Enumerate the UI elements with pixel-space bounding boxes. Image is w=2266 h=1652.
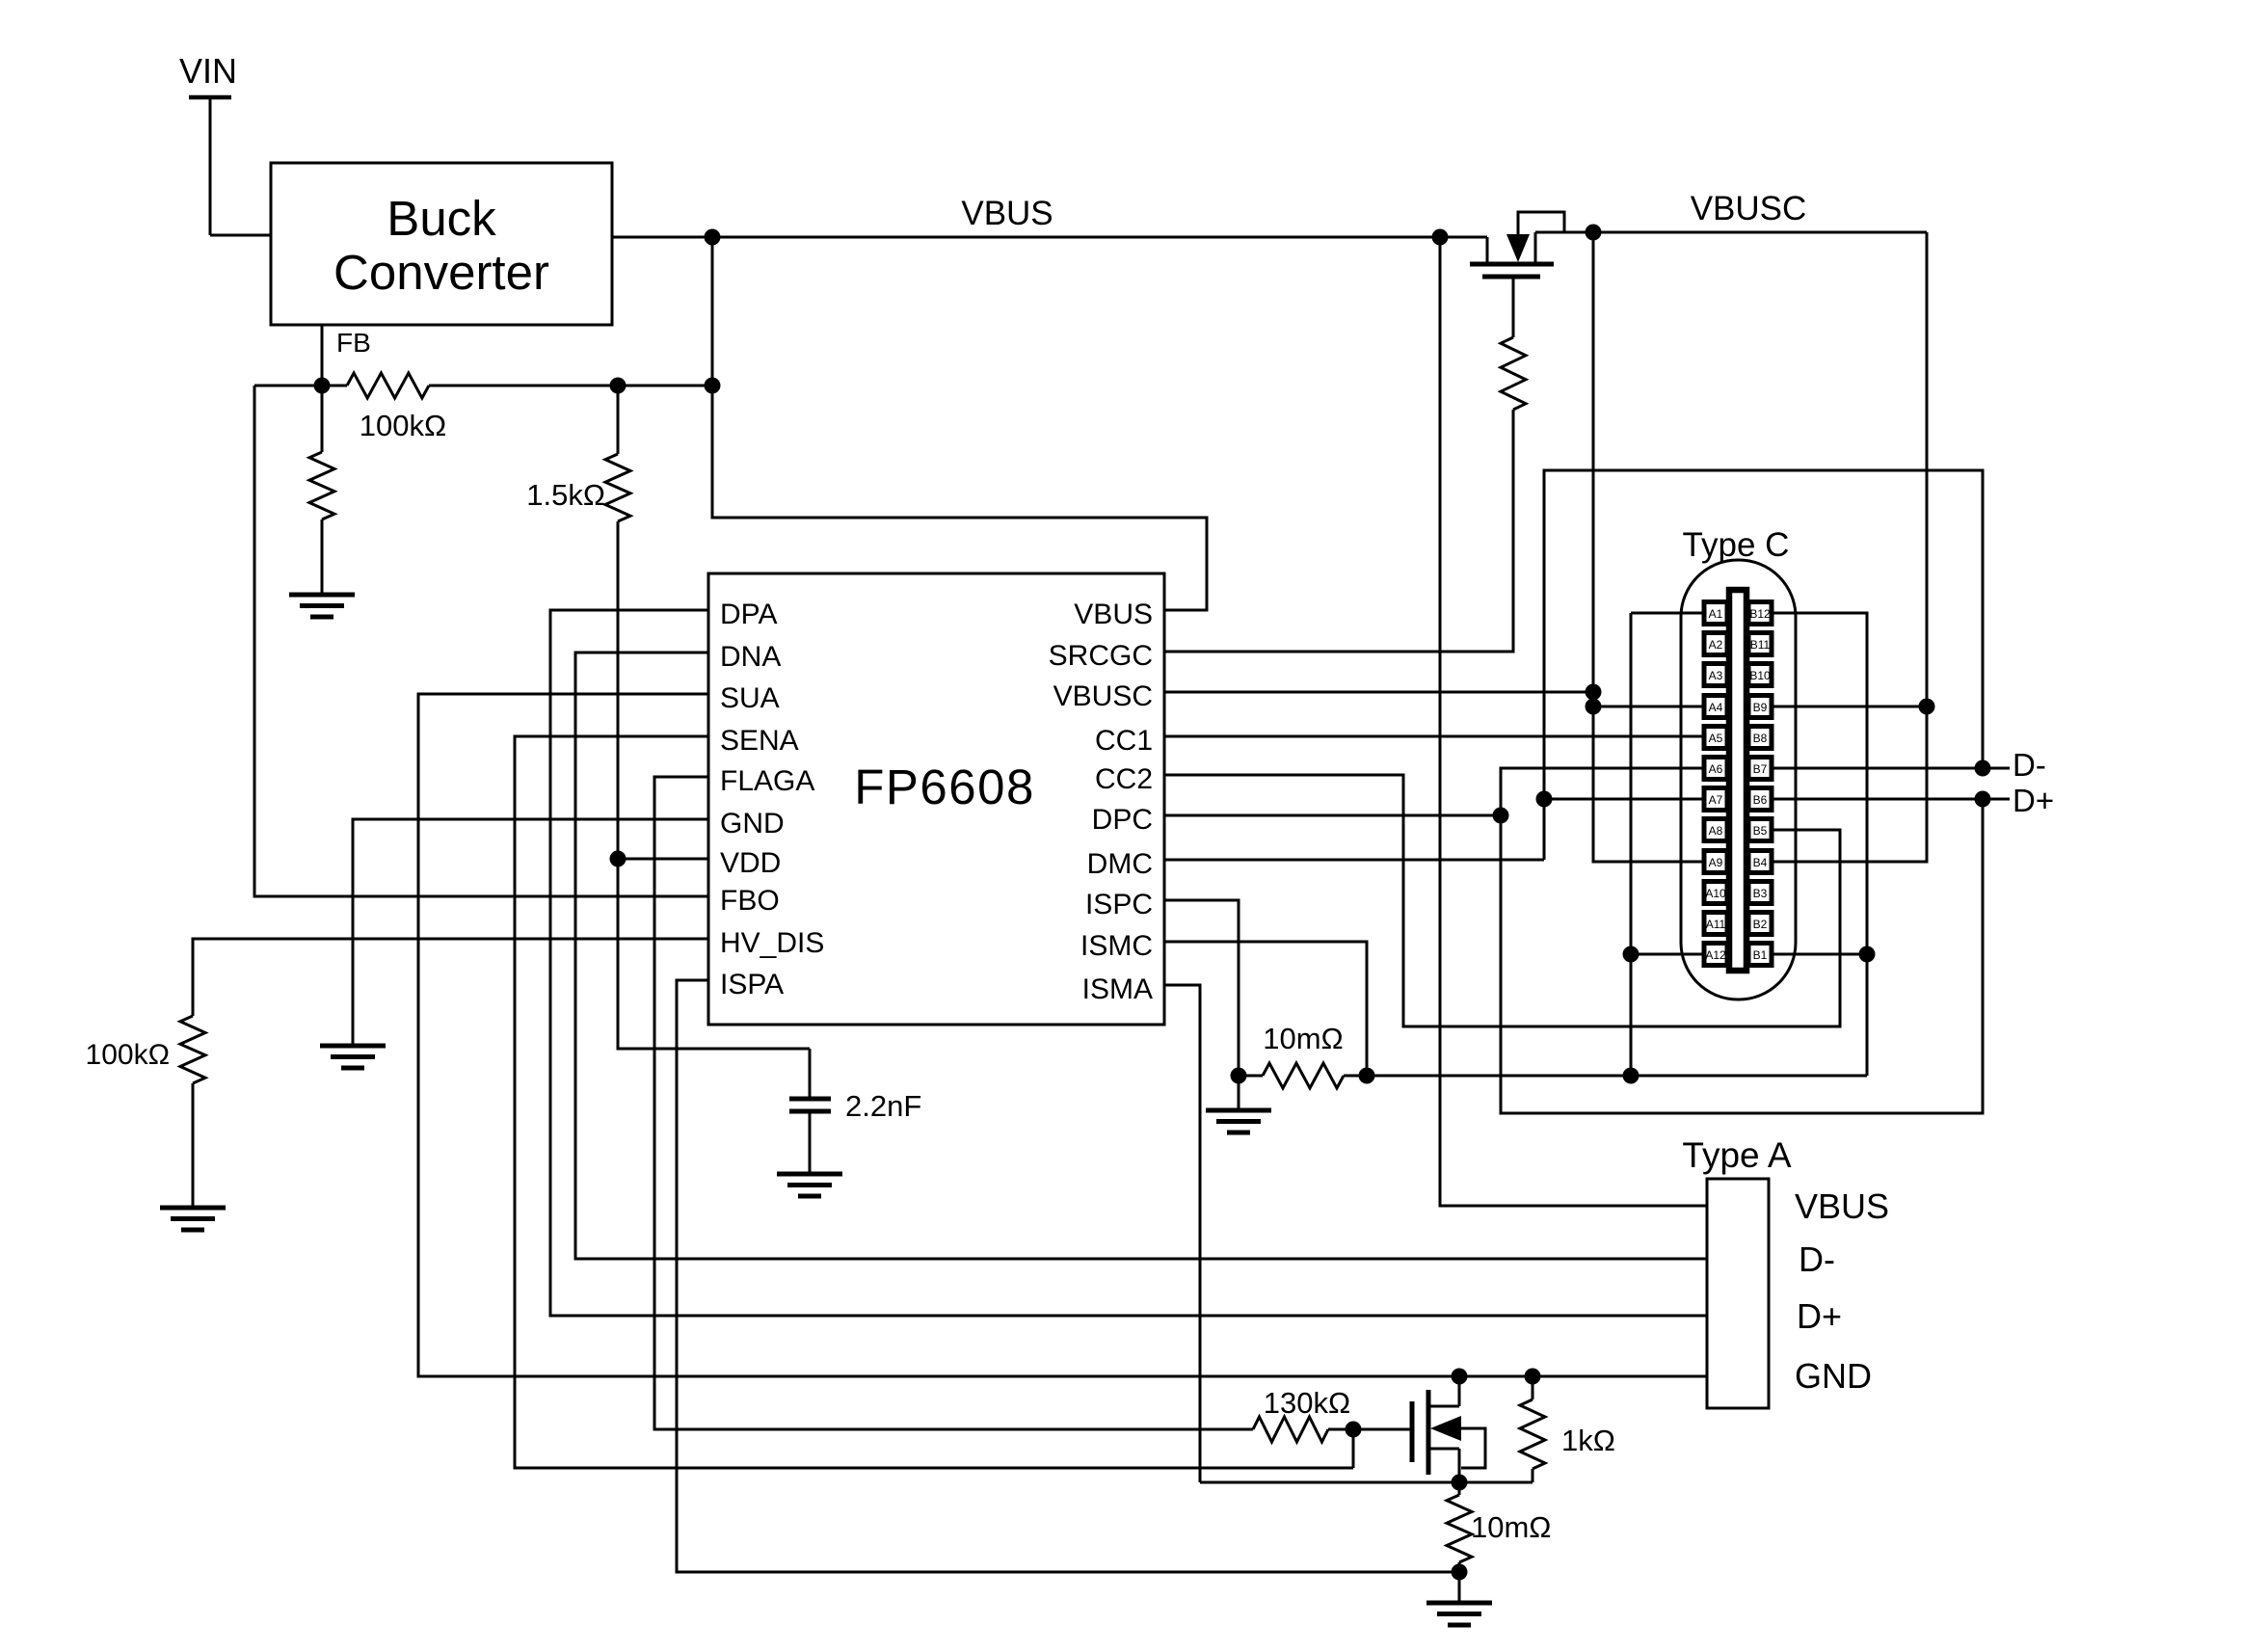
svg-text:ISPA: ISPA: [720, 969, 784, 1000]
wire VIN to Buck input: [210, 234, 271, 237]
ground (Type A sense): [1426, 1603, 1492, 1625]
svg-text:B10: B10: [1749, 669, 1771, 682]
node D+ tap: [1975, 791, 1991, 808]
svg-text:Type A: Type A: [1682, 1135, 1791, 1175]
pin FB of Buck Converter: [322, 325, 371, 386]
wire ISPA to sense resistor bottom: [677, 980, 1459, 1572]
wire 10m left to ground: [1238, 1076, 1240, 1110]
wire VBUSC pin: [1164, 691, 1593, 694]
svg-text:D+: D+: [2013, 783, 2054, 818]
svg-text:CC1: CC1: [1095, 725, 1153, 757]
svg-text:FBO: FBO: [720, 885, 780, 917]
wire VBUS rail (buck output): [612, 195, 1487, 237]
resistor R9 10m (Type A sense): [1447, 1482, 1551, 1572]
node 10m right junction: [1359, 1068, 1375, 1084]
svg-text:B7: B7: [1753, 762, 1768, 776]
svg-text:SRCGC: SRCGC: [1049, 640, 1153, 672]
wire Type A VBUS: [1440, 237, 1707, 1206]
wire Type C A1/A12 ground: [1631, 613, 1704, 1076]
svg-text:A12: A12: [1705, 948, 1726, 962]
svg-text:VDD: VDD: [720, 847, 781, 879]
svg-text:D-: D-: [2013, 747, 2046, 783]
wire ISMC to 10m right: [1164, 942, 1367, 1076]
resistor R3 1.5k (FB node to VDD): [526, 386, 630, 859]
svg-text:DNA: DNA: [720, 641, 781, 673]
svg-text:130kΩ: 130kΩ: [1264, 1386, 1350, 1420]
node DMC/A7 junction: [1536, 791, 1553, 808]
svg-text:B11: B11: [1750, 638, 1771, 652]
wire Type C ground bus: [1367, 1075, 1867, 1078]
svg-text:ISMC: ISMC: [1080, 930, 1153, 962]
svg-text:A9: A9: [1709, 856, 1723, 869]
svg-text:SENA: SENA: [720, 725, 799, 757]
svg-text:A4: A4: [1709, 701, 1723, 714]
power terminal VIN: [179, 51, 237, 235]
label Type A: [1682, 1135, 1791, 1175]
svg-text:B6: B6: [1753, 793, 1768, 807]
svg-text:VBUSC: VBUSC: [1053, 680, 1153, 712]
svg-text:DPC: DPC: [1092, 804, 1153, 836]
node Q2 source junction: [1452, 1475, 1468, 1491]
ground (Type C sense): [1206, 1110, 1271, 1132]
wire DMC net to A7/B7: [1544, 470, 1983, 860]
svg-text:B2: B2: [1753, 918, 1768, 931]
resistor R4 100k (HV_DIS): [86, 1016, 205, 1208]
pin labels of FP6608: [720, 599, 1153, 1005]
svg-text:D-: D-: [1799, 1239, 1835, 1279]
wire SENA to Q2 gate node: [515, 736, 1353, 1468]
node DPC junction: [1493, 808, 1509, 824]
svg-text:100kΩ: 100kΩ: [360, 409, 446, 442]
svg-text:A6: A6: [1709, 762, 1723, 776]
connector J1 tongue: [1729, 590, 1746, 971]
wire 130k to gate: [1328, 1428, 1412, 1431]
svg-text:10mΩ: 10mΩ: [1471, 1510, 1551, 1544]
IC U1 FP6608 body: [708, 573, 1164, 1025]
svg-text:HV_DIS: HV_DIS: [720, 927, 824, 959]
svg-text:VIN: VIN: [179, 51, 237, 91]
resistor R7 10m (Type C sense): [1239, 1022, 1367, 1088]
node B1 junction: [1859, 946, 1876, 963]
node VBUSC pin junction: [1586, 684, 1602, 701]
node VBUSC junction: [1586, 225, 1602, 241]
ground (HV_DIS 100k): [160, 1208, 226, 1230]
node Q2 drain junction: [1452, 1369, 1468, 1385]
svg-text:VBUSC: VBUSC: [1691, 190, 1807, 227]
transistor Q2 NMOS (Type A GND switch): [1412, 1376, 1485, 1482]
svg-text:FLAGA: FLAGA: [720, 765, 814, 797]
svg-text:GND: GND: [1795, 1356, 1872, 1396]
svg-text:A8: A8: [1709, 824, 1723, 838]
node FB-divider right junction: [705, 378, 721, 394]
wire GND pin: [353, 819, 708, 1046]
svg-text:B8: B8: [1753, 732, 1768, 745]
node 10m left junction: [1231, 1068, 1247, 1084]
svg-text:DMC: DMC: [1087, 848, 1153, 880]
transistor Q1 PMOS load switch: [1470, 212, 1564, 277]
node A4 junction: [1586, 699, 1602, 715]
svg-text:10mΩ: 10mΩ: [1263, 1022, 1343, 1055]
label Type C: [1683, 526, 1790, 564]
svg-text:A5: A5: [1709, 732, 1723, 745]
wire DPC: [1164, 814, 1501, 817]
connector J1 Type C shell: [1681, 560, 1796, 999]
wire FB node to FBO: [254, 386, 708, 896]
svg-text:VBUS: VBUS: [961, 195, 1053, 232]
svg-text:B12: B12: [1749, 607, 1771, 621]
ground (FP6608 GND pin): [320, 1046, 386, 1068]
svg-text:Converter: Converter: [333, 245, 549, 300]
wire SUA to Type A GND: [418, 694, 1707, 1376]
node B9 junction: [1919, 699, 1935, 715]
svg-text:A7: A7: [1709, 793, 1723, 807]
wire ISMA to Q2 source: [1164, 985, 1200, 1482]
wire VBUSC vertical to A9: [1593, 232, 1704, 862]
svg-text:A10: A10: [1705, 887, 1726, 900]
ground (C1): [777, 1174, 842, 1196]
wire sense bottom to ground: [1458, 1572, 1461, 1603]
svg-text:B3: B3: [1753, 887, 1768, 900]
svg-text:B9: B9: [1753, 701, 1768, 714]
wire to Type C A4: [1593, 706, 1704, 708]
svg-text:A2: A2: [1709, 638, 1723, 652]
svg-text:2.2nF: 2.2nF: [845, 1089, 921, 1123]
wire Type C B12/B1 ground: [1772, 613, 1867, 1076]
wire Q2 source rail: [1200, 1481, 1533, 1484]
wire CC2 to B5: [1164, 775, 1840, 1026]
svg-text:ISPC: ISPC: [1085, 889, 1153, 920]
node Q2 gate junction: [1346, 1422, 1362, 1438]
svg-text:VBUS: VBUS: [1795, 1186, 1889, 1226]
svg-text:VBUS: VBUS: [1074, 599, 1153, 630]
wire FB node: [254, 385, 712, 387]
svg-text:B5: B5: [1753, 824, 1768, 838]
wire Type C B9: [1772, 706, 1927, 708]
node D- tap: [1975, 760, 1991, 777]
svg-text:FB: FB: [336, 328, 371, 358]
wire DNA to Type A D-: [575, 653, 1707, 1259]
wire VDD to bypass cap: [618, 859, 810, 1049]
svg-text:100kΩ: 100kΩ: [86, 1039, 170, 1071]
svg-text:CC2: CC2: [1095, 763, 1153, 795]
node A12 junction: [1623, 946, 1640, 963]
resistor R1 100k (FB to VBUS): [347, 373, 446, 442]
svg-text:A11: A11: [1706, 918, 1726, 931]
wire VBUSC right drop to B4: [1772, 232, 1927, 862]
svg-text:Buck: Buck: [387, 191, 496, 246]
svg-text:ISMA: ISMA: [1082, 973, 1153, 1005]
wire DPC net to A6/B6: [1501, 768, 1983, 1113]
wire SRCGC to Q1 gate resistor: [1164, 410, 1513, 652]
wire VBUSC rail (after switch): [1535, 190, 1927, 232]
resistor R8 1k: [1520, 1376, 1615, 1482]
node VBUS junction at x739: [705, 229, 721, 246]
wire VDD pin: [618, 858, 708, 861]
svg-text:SUA: SUA: [720, 682, 780, 714]
svg-text:FP6608: FP6608: [854, 759, 1035, 814]
wire CC1 to A5: [1164, 735, 1704, 738]
wire HV_DIS to 100k: [193, 939, 708, 1016]
wire DPA to Type A D+: [550, 610, 1707, 1316]
svg-text:B1: B1: [1753, 948, 1768, 962]
svg-text:1.5kΩ: 1.5kΩ: [526, 478, 605, 512]
svg-text:GND: GND: [720, 808, 785, 839]
connector J1 pin boxes: [1704, 602, 1772, 966]
wire VBUS down to FB divider: [711, 237, 714, 386]
node A-side ground junction: [1623, 1068, 1640, 1084]
wire D- stub: [1983, 747, 2046, 783]
node VBUS tap for Type A: [1432, 229, 1449, 246]
node FB junction: [314, 378, 331, 394]
labels Type A pins: [1795, 1186, 1889, 1396]
resistor R6 (Q1 gate): [1501, 277, 1526, 410]
block Buck Converter U2: [271, 163, 612, 325]
ground (FB divider): [289, 595, 355, 617]
connector J2 Type A: [1707, 1179, 1769, 1408]
node 1k top junction: [1525, 1369, 1541, 1385]
svg-text:B4: B4: [1753, 856, 1768, 869]
wire ISPC to 10m left: [1164, 900, 1239, 1076]
svg-text:A3: A3: [1709, 669, 1723, 682]
svg-text:A1: A1: [1709, 607, 1723, 621]
wire to FP6608 VBUS pin: [712, 386, 1207, 610]
node VDD junction: [610, 851, 626, 867]
resistor R5 130k: [1253, 1386, 1350, 1442]
resistor R2 (FB to GND): [309, 386, 334, 595]
svg-text:DPA: DPA: [720, 599, 777, 630]
wire D+ stub: [1983, 783, 2054, 818]
node sense bottom junction: [1452, 1564, 1468, 1581]
wire DMC: [1164, 859, 1544, 862]
svg-text:D+: D+: [1797, 1296, 1842, 1336]
node 1.5k top junction: [610, 378, 626, 394]
svg-text:1kΩ: 1kΩ: [1561, 1424, 1615, 1457]
wire FLAGA to 130k: [654, 777, 1253, 1429]
capacitor C1 2.2nF: [789, 1049, 921, 1174]
svg-text:Type C: Type C: [1683, 526, 1790, 564]
